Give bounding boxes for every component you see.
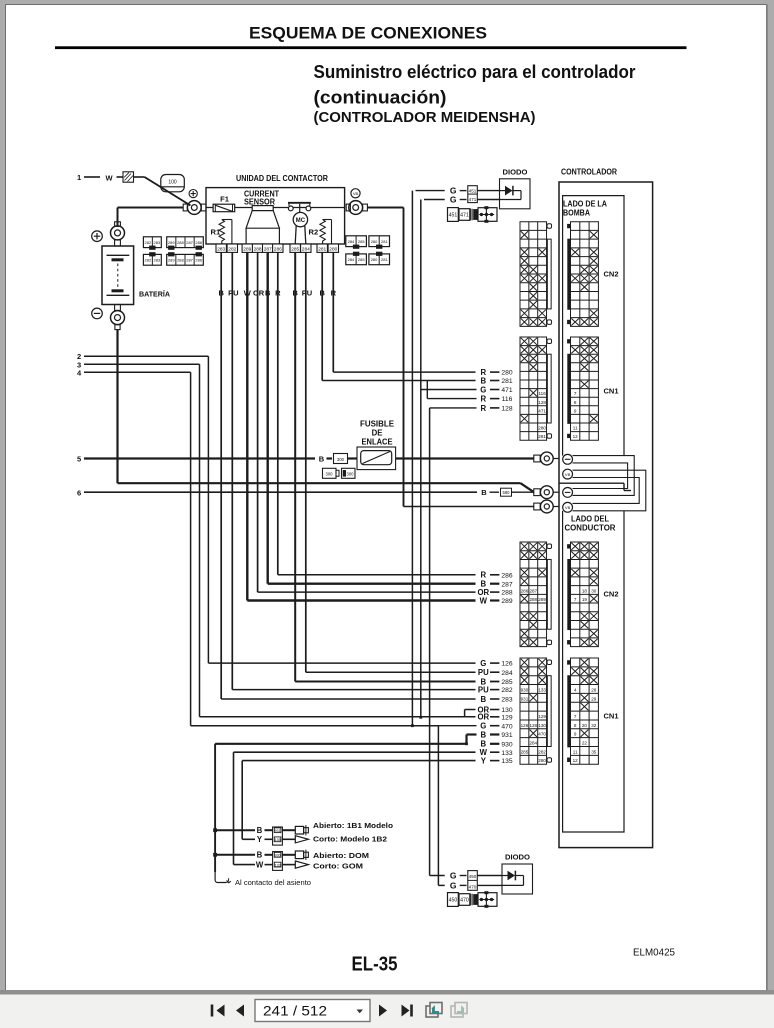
svg-text:B: B (481, 488, 487, 497)
svg-text:28: 28 (591, 687, 597, 692)
wire diagonal to ring (145, 177, 191, 206)
svg-text:PU: PU (478, 668, 489, 677)
svg-text:300: 300 (337, 457, 345, 462)
stud terminal VB 2 (563, 502, 573, 512)
svg-text:470: 470 (538, 732, 546, 737)
svg-text:PU: PU (302, 289, 312, 298)
svg-text:284: 284 (348, 257, 355, 262)
driver CN2 controller connector pinN mark (567, 640, 570, 644)
svg-text:289: 289 (538, 597, 546, 602)
svg-text:451: 451 (449, 213, 458, 219)
svg-text:281: 281 (381, 257, 388, 262)
junction dot B/switch2 (213, 853, 217, 857)
svg-text:30: 30 (591, 588, 597, 593)
svg-text:12: 12 (573, 758, 579, 763)
wire pin280 to stub (333, 371, 475, 373)
svg-text:285: 285 (501, 679, 512, 686)
driver CN1 controller connector pin1 mark (567, 660, 570, 664)
wire pin287 vertical (267, 252, 269, 583)
svg-text:8: 8 (574, 400, 577, 405)
svg-text:930: 930 (501, 741, 512, 748)
svg-text:288: 288 (254, 246, 262, 252)
svg-text:7: 7 (574, 391, 577, 396)
svg-text:471: 471 (501, 387, 512, 394)
junction G-471/wire3 (419, 716, 422, 719)
svg-text:128: 128 (529, 723, 537, 728)
toolbar separator (0, 990, 774, 995)
svg-text:11: 11 (573, 749, 578, 754)
svg-text:289: 289 (168, 240, 175, 245)
ring terminal wire5 B+ (534, 455, 540, 462)
toolbar page input (255, 1000, 370, 1022)
connector faces 289-286 row2 (167, 254, 204, 265)
connector 450/470 with mating plug (448, 893, 459, 907)
toolbar first-page button (211, 1005, 214, 1017)
svg-text:Al contacto del asiento: Al contacto del asiento (235, 878, 311, 887)
svg-text:284: 284 (501, 670, 512, 677)
connector faces 282/283 row1 (143, 237, 161, 248)
wire pin287 to stub (268, 583, 476, 585)
title rule (55, 46, 687, 49)
svg-text:9: 9 (574, 732, 577, 737)
svg-text:R1: R1 (211, 228, 221, 237)
svg-text:(continuación): (continuación) (314, 87, 447, 107)
wire pin280 vertical (332, 252, 334, 372)
driver CN2 harness connector bottom tab (547, 640, 552, 645)
svg-text:PU: PU (478, 686, 489, 695)
wire (117, 176, 124, 178)
driver CN2 harness connector cover outline (547, 559, 551, 629)
svg-text:286: 286 (195, 257, 202, 262)
wire R-128 / 450 vertical (x=429.6) (429, 408, 431, 876)
wire 2 vertical (207, 356, 209, 663)
stud terminal VB 1 (563, 469, 573, 479)
contactor internal bus wire (206, 207, 345, 209)
svg-text:(CONTROLADOR MEIDENSHA): (CONTROLADOR MEIDENSHA) (314, 110, 536, 126)
wire G-451 to diode (416, 190, 445, 192)
wire B-931 (467, 733, 477, 735)
svg-text:470: 470 (460, 898, 469, 904)
svg-text:5: 5 (77, 455, 81, 464)
svg-text:300: 300 (326, 472, 334, 477)
wire 1 segment (84, 176, 100, 178)
svg-text:FUSIBLE: FUSIBLE (360, 420, 394, 429)
svg-text:280: 280 (538, 426, 546, 431)
svg-text:286: 286 (195, 240, 202, 245)
driver CN1 controller connector pinN mark (567, 758, 570, 762)
svg-text:283: 283 (501, 697, 512, 704)
battery B1 (102, 246, 134, 305)
stud terminal minus 1 (563, 454, 573, 464)
svg-text:128: 128 (538, 400, 546, 405)
wire G-470 bottom (438, 884, 444, 886)
wire pin284 vertical (305, 252, 307, 672)
driver CN2 controller connector pin1 mark (567, 544, 570, 548)
svg-text:283: 283 (217, 246, 225, 252)
wire R-116 vertical (x=427.3) (426, 381, 428, 399)
contactor pin boxes 283-280 (216, 244, 226, 252)
svg-text:287: 287 (186, 240, 193, 245)
wire R-116 stub (427, 398, 476, 400)
pump CN2 controller connector pin bar (567, 239, 570, 310)
wire battery negative down (116, 330, 118, 484)
svg-text:470: 470 (469, 885, 477, 890)
svg-text:Abierto: 1B1 Modelo: Abierto: 1B1 Modelo (313, 821, 394, 830)
svg-text:32: 32 (591, 723, 597, 728)
svg-text:281: 281 (538, 434, 546, 439)
toolbar last-page button (402, 1005, 410, 1017)
svg-text:20: 20 (582, 723, 588, 728)
wire W vertical (233, 752, 235, 864)
ring terminal battery+ to contactor (183, 204, 187, 211)
svg-text:241 / 512: 241 / 512 (263, 1004, 327, 1019)
wire pin286 to stub (278, 574, 476, 576)
pump CN1 harness connector cover outline (547, 354, 551, 423)
svg-text:471: 471 (538, 408, 546, 413)
inline connector 300 (334, 454, 348, 464)
svg-text:G: G (480, 722, 486, 731)
wire 2 to stub G-126 (208, 662, 475, 664)
wire G-471 from diode (424, 199, 445, 201)
svg-text:18: 18 (582, 588, 588, 593)
svg-text:BATERÍA: BATERÍA (139, 290, 170, 299)
svg-text:G: G (450, 871, 457, 881)
svg-text:281: 281 (501, 378, 512, 385)
svg-text:133: 133 (538, 687, 546, 692)
svg-text:R: R (480, 395, 486, 404)
svg-text:B: B (480, 695, 486, 704)
wire 3 to stub OR-129 (200, 716, 476, 718)
driver CN1 harness connector (520, 658, 547, 764)
svg-text:G: G (480, 385, 486, 394)
svg-text:280: 280 (371, 239, 378, 244)
svg-text:930: 930 (275, 854, 281, 858)
svg-text:129: 129 (501, 714, 512, 721)
svg-text:BOMBA: BOMBA (563, 209, 590, 218)
wire (134, 176, 145, 178)
driver CN1 harness connector cover outline (547, 676, 551, 747)
pump CN1 controller connector pin bar (567, 354, 570, 424)
wire W-133 horizontal (234, 751, 476, 753)
svg-text:471: 471 (469, 197, 477, 202)
svg-text:W: W (105, 174, 113, 183)
wire battery negative horizontal (118, 482, 521, 484)
wire Y vertical (241, 761, 243, 840)
svg-text:UNIDAD DEL CONTACTOR: UNIDAD DEL CONTACTOR (236, 174, 328, 183)
connector pair 300/300 below fusible (323, 468, 337, 478)
svg-text:CONDUCTOR: CONDUCTOR (565, 524, 616, 533)
battery bottom terminal ring (115, 305, 121, 311)
junction dot B/switch1 (213, 828, 217, 832)
svg-text:116: 116 (538, 391, 546, 396)
wire VB to vertical (367, 207, 403, 209)
svg-text:133: 133 (501, 750, 512, 757)
wire OR-130 hook (465, 709, 476, 711)
wire VB vertical (x=403.5) (403, 208, 405, 507)
svg-text:W: W (480, 596, 488, 605)
connector cavities 450/470 (468, 871, 478, 891)
svg-text:W: W (256, 861, 264, 870)
pump CN2 controller connector pinN mark (567, 320, 570, 324)
wire R1 to pin 282 (231, 220, 233, 245)
wire pin283 vertical (220, 252, 222, 699)
toolbar prev button (236, 1005, 244, 1017)
svg-text:286: 286 (274, 246, 282, 252)
wire pin282 to stub (232, 689, 475, 691)
svg-text:PU: PU (228, 289, 238, 298)
svg-text:289: 289 (501, 598, 512, 605)
svg-text:450: 450 (469, 874, 477, 879)
svg-text:B: B (319, 454, 325, 463)
svg-text:130: 130 (538, 723, 546, 728)
svg-text:CONTROLADOR: CONTROLADOR (561, 168, 617, 177)
svg-text:VB: VB (565, 472, 571, 477)
svg-text:282: 282 (538, 749, 546, 754)
svg-text:126: 126 (501, 661, 512, 668)
svg-text:ESQUEMA DE CONEXIONES: ESQUEMA DE CONEXIONES (249, 24, 487, 43)
wire pin282 vertical (231, 252, 233, 689)
svg-text:288: 288 (501, 590, 512, 597)
svg-text:285: 285 (358, 257, 365, 262)
pump CN1 harness connector top tab (547, 339, 552, 344)
pump CN1 controller connector (571, 337, 599, 440)
toolbar previous-view icon (426, 1006, 438, 1017)
svg-text:281: 281 (318, 246, 326, 252)
svg-text:470: 470 (501, 723, 512, 730)
svg-text:129: 129 (538, 714, 546, 719)
svg-text:G: G (450, 880, 457, 890)
wire pin289 vertical (246, 252, 248, 600)
driver CN1 harness connector bottom tab (547, 758, 552, 763)
stud terminal minus 2 (563, 488, 573, 498)
svg-text:OR: OR (253, 289, 265, 298)
svg-text:471: 471 (460, 213, 469, 219)
wire pin286 vertical (277, 252, 279, 574)
wire G-470 stub (438, 725, 476, 727)
toolbar next button (379, 1005, 387, 1017)
connector 451/471 with mating plug (448, 208, 459, 222)
wire pin288 to stub (258, 591, 476, 593)
connector faces 280/281 row2 (369, 254, 390, 265)
controller inner box pump side (563, 196, 624, 456)
wire pin285 vertical (294, 252, 296, 681)
svg-text:280: 280 (371, 257, 378, 262)
seat contact arrow and label (215, 872, 226, 883)
svg-text:288: 288 (529, 597, 537, 602)
wire 4 horizontal (84, 371, 191, 373)
ring terminal contactor to controller VB (346, 204, 350, 211)
junction dot B-931 branch (465, 742, 468, 745)
toolbar background (0, 995, 774, 1028)
svg-text:R: R (480, 571, 486, 580)
svg-text:Corto: GOM: Corto: GOM (313, 861, 363, 870)
svg-text:R: R (480, 404, 486, 413)
svg-text:19: 19 (582, 597, 588, 602)
pump CN2 harness connector top tab (547, 224, 552, 229)
svg-text:282: 282 (501, 687, 512, 694)
wire B to seat contact block (215, 743, 466, 745)
driver CN2 controller connector (571, 542, 599, 647)
svg-text:CN1: CN1 (604, 387, 619, 396)
seat switch connector 2 (B-930 / W-133) (215, 854, 255, 856)
svg-text:CN2: CN2 (604, 270, 619, 279)
plus terminal mark (189, 190, 197, 198)
wire pin285 to stub (295, 681, 475, 683)
svg-text:Corto: Modelo 1B2: Corto: Modelo 1B2 (313, 835, 387, 844)
svg-text:931: 931 (275, 829, 281, 833)
svg-text:OR: OR (477, 713, 489, 722)
svg-text:B: B (257, 851, 263, 860)
svg-text:EL-35: EL-35 (352, 953, 398, 976)
battery minus symbol (92, 308, 103, 319)
svg-text:Abierto: DOM: Abierto: DOM (313, 851, 369, 860)
svg-text:280: 280 (501, 370, 512, 377)
pump CN2 controller connector pin1 mark (567, 224, 570, 228)
svg-text:287: 287 (529, 588, 537, 593)
wire 5 thick (84, 457, 315, 459)
wire 4 vertical (190, 372, 192, 725)
svg-text:931: 931 (521, 696, 529, 701)
svg-text:287: 287 (501, 581, 512, 588)
wire diagonal to ring2 (521, 483, 534, 491)
wire battery+ down (117, 208, 119, 227)
svg-text:281: 281 (381, 239, 388, 244)
pump CN2 harness connector cover outline (547, 239, 551, 309)
pump CN1 harness connector bottom tab (547, 434, 552, 439)
svg-text:282: 282 (228, 246, 236, 252)
svg-text:286: 286 (501, 572, 512, 579)
svg-text:MC: MC (296, 218, 306, 224)
svg-text:284: 284 (529, 741, 537, 746)
wire pin284 to stub (306, 671, 476, 673)
svg-text:116: 116 (502, 396, 513, 403)
wire pin281 vertical (321, 252, 323, 380)
svg-text:DE: DE (372, 429, 383, 438)
battery negative tap inside controller (559, 482, 624, 484)
connector cavities 451/471 (468, 186, 478, 203)
svg-text:ELM0425: ELM0425 (633, 947, 675, 959)
svg-text:100: 100 (168, 180, 177, 186)
svg-text:35: 35 (591, 749, 597, 754)
svg-text:285: 285 (291, 246, 299, 252)
wire pin289 to stub (247, 599, 475, 601)
wire G-450 (430, 875, 445, 877)
wire 6 (84, 491, 477, 493)
VB label circle (351, 189, 360, 198)
ring terminal battery negative (534, 489, 540, 496)
svg-text:289: 289 (243, 246, 251, 252)
wire pin283 to stub (221, 698, 475, 700)
svg-text:G: G (480, 659, 486, 668)
wire B-931 hook (465, 735, 467, 744)
svg-text:7: 7 (574, 714, 577, 719)
driver CN2 harness connector (520, 542, 547, 647)
driver CN1 controller connector (571, 658, 599, 764)
svg-text:VB: VB (353, 191, 359, 196)
battery plus symbol (92, 231, 103, 242)
svg-text:8: 8 (574, 723, 577, 728)
MC coil (293, 212, 307, 226)
svg-text:B: B (257, 826, 263, 835)
svg-text:128: 128 (501, 406, 512, 413)
svg-text:289: 289 (168, 257, 175, 262)
ring terminal VB (534, 503, 540, 510)
svg-text:280: 280 (329, 246, 337, 252)
fusible link 100 (161, 175, 185, 192)
svg-text:135: 135 (275, 838, 281, 842)
driver CN1 controller connector pin bar (567, 675, 570, 747)
svg-text:286: 286 (521, 588, 529, 593)
svg-text:931: 931 (501, 732, 512, 739)
svg-text:284: 284 (302, 246, 310, 252)
svg-text:126: 126 (521, 723, 529, 728)
svg-text:G: G (450, 195, 457, 205)
controller inner box driver side (563, 511, 624, 832)
svg-text:284: 284 (348, 239, 355, 244)
connector faces 289-286 row1 (167, 237, 204, 248)
wire Y-135 horizontal (242, 760, 475, 762)
svg-text:4: 4 (574, 687, 577, 692)
wire G-451 vertical (x=412.4) (411, 191, 413, 726)
pump CN1 harness connector (520, 337, 547, 440)
svg-text:DIODO: DIODO (503, 167, 528, 176)
wire G-470 vertical (x=438.4) (437, 726, 439, 886)
junction G-451/wire4 (411, 724, 414, 727)
connector faces 282/283 row2 (143, 254, 161, 265)
svg-text:135: 135 (501, 758, 512, 765)
svg-text:CN1: CN1 (604, 712, 619, 721)
hollow bus VB1-VB2 (573, 470, 646, 511)
driver CN1 harness connector top tab (547, 660, 552, 665)
svg-text:22: 22 (582, 741, 588, 746)
svg-text:282: 282 (145, 257, 152, 262)
svg-text:282: 282 (145, 240, 152, 245)
wire 3 vertical (199, 364, 201, 717)
wire 2 horizontal (84, 355, 208, 357)
svg-text:B: B (480, 376, 486, 385)
svg-text:Suministro eléctrico para el c: Suministro eléctrico para el controlador (314, 62, 636, 82)
wire VB to ring3 (404, 506, 534, 508)
svg-text:11: 11 (573, 426, 578, 431)
svg-text:6: 6 (77, 488, 81, 497)
svg-text:R2: R2 (309, 228, 319, 237)
hollow bus minus1-minus2 (573, 456, 635, 496)
contactor unit box (206, 188, 345, 244)
connector faces 284/285 row1 (346, 236, 367, 247)
wire contact to MC coil (299, 204, 301, 214)
wire pin281 to stub (322, 380, 475, 382)
svg-text:288: 288 (177, 240, 184, 245)
wire pin288 vertical (257, 252, 259, 592)
svg-text:29: 29 (591, 696, 597, 701)
svg-text:287: 287 (186, 257, 193, 262)
svg-text:451: 451 (469, 189, 477, 194)
svg-text:300: 300 (347, 472, 355, 477)
wire G-471 stub (421, 389, 477, 391)
pump CN1 controller connector pinN mark (567, 434, 570, 438)
svg-text:130: 130 (501, 707, 512, 714)
wire B vertical to seat switches (214, 744, 216, 872)
svg-text:ENLACE: ENLACE (362, 438, 393, 447)
svg-text:1: 1 (77, 173, 81, 182)
svg-text:LADO DEL: LADO DEL (571, 515, 609, 524)
connector faces 280/281 row1 (369, 236, 390, 247)
svg-text:285: 285 (358, 239, 365, 244)
seat switch connector 1 (B-931 / Y-135) (215, 829, 255, 831)
svg-text:Y: Y (481, 757, 487, 766)
svg-text:580: 580 (503, 490, 511, 495)
svg-text:283: 283 (153, 257, 160, 262)
